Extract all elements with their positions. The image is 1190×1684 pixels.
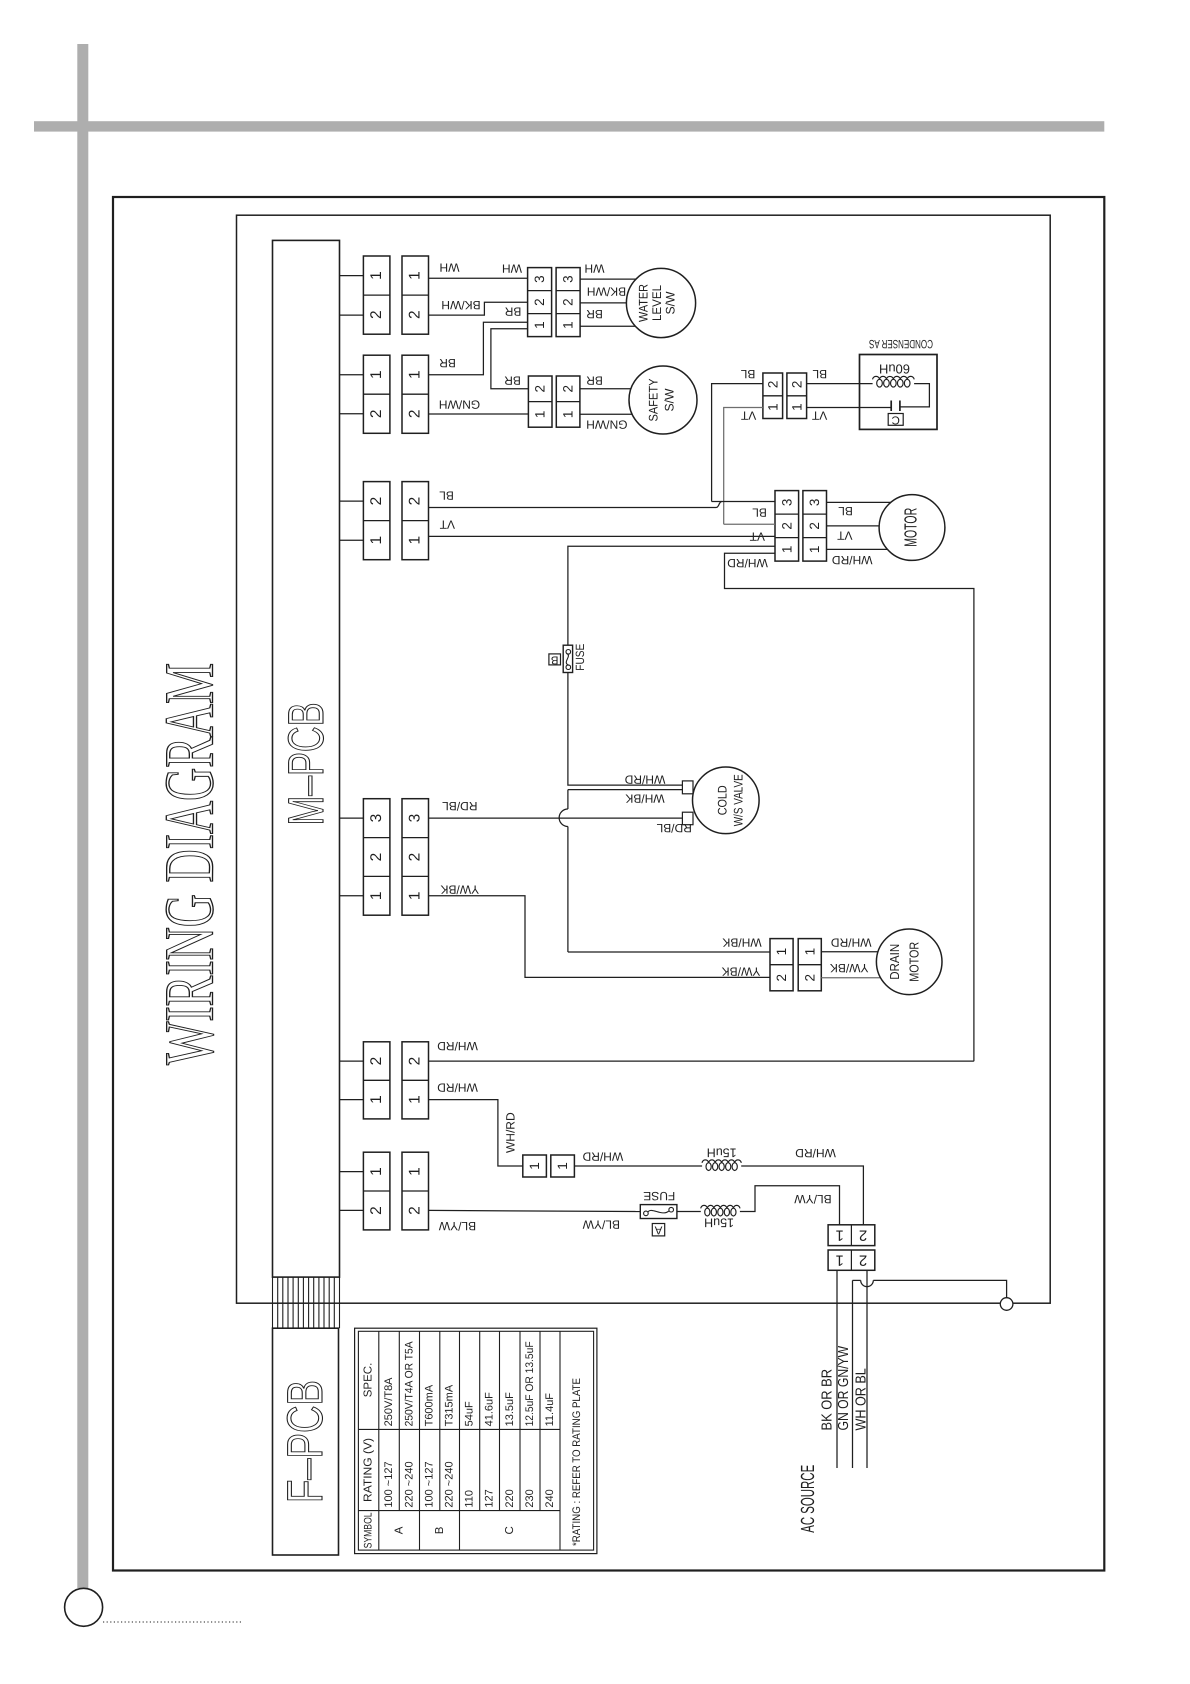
svg-text:12.5uF OR 13.5uF: 12.5uF OR 13.5uF	[524, 1341, 536, 1426]
svg-text:1: 1	[407, 536, 424, 545]
svg-text:WH: WH	[585, 262, 605, 276]
svg-text:GN/WH: GN/WH	[439, 398, 480, 412]
condenser internal wire	[900, 384, 930, 407]
svg-text:GN/WH: GN/WH	[586, 417, 627, 431]
svg-text:T315mA: T315mA	[444, 1384, 456, 1426]
svg-text:BR: BR	[504, 374, 521, 388]
valve pin 1	[682, 781, 693, 794]
svg-text:YW/BK: YW/BK	[722, 964, 761, 978]
svg-text:2: 2	[561, 385, 576, 393]
wire YW/BK: G-1 to drain connector 2	[429, 896, 771, 978]
wire BL/YW: coil up and over to AC connector	[740, 1186, 840, 1225]
svg-text:BK/WH: BK/WH	[441, 298, 480, 312]
svg-text:2: 2	[789, 381, 804, 389]
svg-text:1: 1	[368, 370, 385, 379]
svg-text:15uH: 15uH	[704, 1215, 734, 1229]
registration circle	[65, 1588, 103, 1626]
svg-text:1: 1	[555, 1162, 570, 1170]
wire WH/RD: fuse to valve pin 1	[568, 673, 683, 786]
svg-text:BL: BL	[439, 489, 454, 503]
svg-text:1: 1	[533, 411, 548, 419]
svg-text:2: 2	[561, 298, 576, 306]
connector CN-I (power in)	[363, 1152, 428, 1230]
svg-text:MOTOR: MOTOR	[907, 942, 922, 982]
svg-text:WH/RD: WH/RD	[503, 1112, 517, 1153]
svg-text:AC SOURCE: AC SOURCE	[798, 1465, 819, 1533]
svg-text:1: 1	[836, 1227, 844, 1244]
condenser capacitor plates	[890, 401, 892, 412]
table outer double border	[355, 1328, 597, 1553]
svg-text:S/W: S/W	[663, 388, 677, 411]
svg-text:F–PCB: F–PCB	[277, 1380, 333, 1503]
svg-text:2: 2	[407, 853, 424, 862]
wire BK OR BR	[836, 1270, 838, 1468]
svg-text:2: 2	[807, 522, 822, 530]
wires drain right box to drain motor	[821, 951, 909, 953]
connector CN-G (valve/drain)	[363, 799, 428, 916]
connector CN-DR (drain motor)	[770, 939, 821, 991]
condenser coil 60uH	[873, 376, 915, 379]
svg-text:220 ~240: 220 ~240	[444, 1461, 456, 1507]
wire BL/YW: fuse to 15uH coil (lower)	[677, 1211, 701, 1213]
svg-text:2: 2	[407, 409, 424, 418]
wire GN OR GN/YW (earth) with hop	[852, 1280, 854, 1468]
svg-text:CONDENSER AS: CONDENSER AS	[869, 337, 933, 351]
safety switch circle	[629, 366, 697, 434]
svg-text:W/S VALVE: W/S VALVE	[732, 774, 746, 826]
rating table	[355, 1328, 597, 1553]
boxed label A	[652, 1224, 664, 1236]
fuse A body	[640, 1205, 677, 1219]
svg-text:FUSE: FUSE	[643, 1189, 675, 1203]
svg-text:WH/RD: WH/RD	[624, 772, 665, 786]
svg-text:240: 240	[544, 1489, 556, 1507]
svg-text:SAFETY: SAFETY	[647, 378, 661, 422]
valve pin 2	[682, 812, 693, 825]
wire BL: D-2 left down to motor connector	[712, 384, 763, 502]
svg-text:1: 1	[368, 891, 385, 900]
water level switch circle	[626, 268, 695, 337]
svg-text:VT: VT	[836, 529, 852, 543]
wire WH/RD: H-1 down to inline connector	[429, 1100, 523, 1166]
svg-text:YW/BK: YW/BK	[830, 961, 869, 975]
svg-text:2: 2	[779, 522, 794, 530]
svg-text:BL: BL	[812, 367, 827, 381]
svg-text:B: B	[434, 1526, 446, 1534]
svg-text:2: 2	[368, 409, 385, 418]
M-PCB stub wires to connectors	[340, 276, 364, 1211]
svg-text:1: 1	[774, 948, 789, 956]
svg-text:2: 2	[368, 497, 385, 506]
svg-text:BK/WH: BK/WH	[587, 285, 626, 299]
svg-text:2: 2	[368, 1206, 385, 1215]
svg-text:M–PCB: M–PCB	[278, 703, 334, 826]
dotted leader line	[103, 1621, 243, 1623]
svg-text:2: 2	[533, 385, 548, 393]
svg-text:2: 2	[407, 497, 424, 506]
svg-text:250V/T4A OR T5A: 250V/T4A OR T5A	[403, 1341, 415, 1427]
svg-text:2: 2	[368, 310, 385, 319]
boxed label C	[888, 414, 903, 426]
svg-text:13.5uF: 13.5uF	[504, 1392, 516, 1427]
svg-text:127: 127	[484, 1489, 496, 1507]
svg-text:WH: WH	[502, 262, 522, 276]
svg-text:3: 3	[807, 499, 822, 507]
wire BR: A2-1 up to B-1	[429, 322, 528, 374]
svg-text:WATER: WATER	[636, 284, 650, 322]
svg-text:220: 220	[504, 1489, 516, 1507]
svg-text:BL: BL	[838, 504, 853, 518]
svg-text:2: 2	[407, 310, 424, 319]
wire BL: E-2 to motor-3 with jog	[429, 507, 717, 509]
coil 15uH (upper)	[702, 1160, 741, 1163]
svg-text:1: 1	[789, 403, 804, 411]
svg-text:RD/BL: RD/BL	[656, 821, 692, 835]
svg-text:WH/RD: WH/RD	[795, 1146, 836, 1160]
connector CN-M (motor)	[775, 491, 827, 561]
M-PCB board box	[273, 240, 340, 1277]
svg-text:2: 2	[859, 1252, 867, 1269]
svg-text:100 ~127: 100 ~127	[424, 1461, 436, 1507]
wire VT: D right box to condenser capacitor	[807, 407, 892, 409]
svg-text:2: 2	[765, 381, 780, 389]
wire WH/RD: J to 15uH coil to AC connector	[574, 1165, 702, 1167]
connector CN-E (motor BL/VT)	[363, 482, 428, 560]
cold valve circle	[693, 767, 760, 834]
coil 15uH (lower)	[701, 1205, 740, 1208]
svg-text:FUSE: FUSE	[573, 644, 587, 671]
svg-text:VT: VT	[740, 409, 756, 423]
wire BL/YW: I-2 to fuse A	[429, 1210, 641, 1211]
svg-text:1: 1	[807, 546, 822, 554]
svg-text:1: 1	[779, 546, 794, 554]
svg-text:220 ~240: 220 ~240	[403, 1461, 415, 1507]
svg-text:S/W: S/W	[664, 291, 678, 314]
svg-text:1: 1	[407, 1167, 424, 1176]
wire WH/BK: valve pin 1 down to drain connector (hops RD/BL)	[568, 789, 683, 791]
svg-text:2: 2	[368, 853, 385, 862]
fuse B body	[563, 645, 572, 672]
svg-text:*RATING : REFER TO RATING PLAT: *RATING : REFER TO RATING PLATE	[571, 1378, 583, 1546]
svg-text:WH: WH	[440, 261, 460, 275]
svg-text:2: 2	[407, 1206, 424, 1215]
connector CN-D (condenser)	[763, 373, 807, 419]
svg-text:VT: VT	[811, 409, 827, 423]
svg-text:11.4uF: 11.4uF	[544, 1393, 556, 1427]
svg-text:WH/RD: WH/RD	[832, 553, 873, 567]
wire GN/WH: A2-2 to C-1	[429, 413, 529, 415]
svg-text:1: 1	[368, 1095, 385, 1104]
svg-text:2: 2	[407, 1057, 424, 1066]
svg-text:SYMBOL: SYMBOL	[363, 1512, 375, 1548]
drain motor circle	[876, 929, 942, 995]
wire WH/RD: fuse branch into motor-1	[568, 546, 775, 645]
svg-text:1: 1	[368, 271, 385, 280]
connector CN-J (inline)	[523, 1155, 575, 1177]
svg-text:BR: BR	[586, 374, 603, 388]
svg-text:A: A	[393, 1526, 405, 1534]
svg-text:15uH: 15uH	[707, 1145, 737, 1159]
svg-text:3: 3	[561, 275, 576, 283]
inner diagram border	[237, 215, 1051, 1303]
svg-text:BL: BL	[740, 367, 755, 381]
svg-text:BL/YW: BL/YW	[794, 1192, 832, 1206]
wire BL: D right box to condenser coil	[807, 383, 873, 385]
wire WH: A1-1 to B-3	[429, 277, 528, 279]
wire WH/RD: loop to drain side into motor-1	[725, 553, 974, 1061]
svg-text:41.6uF: 41.6uF	[484, 1392, 496, 1427]
svg-text:230: 230	[524, 1489, 536, 1507]
table band dividers	[358, 1428, 560, 1430]
svg-text:3: 3	[407, 814, 424, 823]
svg-text:WH/RD: WH/RD	[437, 1081, 478, 1095]
svg-text:WIRING DIAGRAM: WIRING DIAGRAM	[152, 663, 229, 1065]
svg-text:WH/BK: WH/BK	[722, 935, 761, 949]
svg-text:2: 2	[802, 974, 817, 982]
svg-text:VT: VT	[439, 518, 455, 532]
svg-text:WH OR BL: WH OR BL	[854, 1368, 870, 1430]
wire WH/BK into drain-1	[568, 951, 770, 953]
svg-text:GN OR GN/YW: GN OR GN/YW	[836, 1346, 852, 1431]
svg-text:1: 1	[561, 411, 576, 419]
svg-text:WH/RD: WH/RD	[831, 935, 872, 949]
svg-text:T600mA: T600mA	[424, 1384, 436, 1426]
wires C right box to safety switch	[580, 388, 663, 390]
condenser assembly box	[860, 355, 938, 430]
registration mark vertical grey bar	[77, 44, 88, 1588]
svg-text:3: 3	[779, 499, 794, 507]
svg-text:MOTOR: MOTOR	[901, 508, 921, 547]
svg-text:250V/T8A: 250V/T8A	[383, 1377, 395, 1427]
M-PCB to F-PCB ribbon cable hatch	[273, 1277, 340, 1328]
outer page border	[113, 197, 1104, 1571]
svg-text:YW/BK: YW/BK	[440, 883, 479, 897]
wires motor right box to motor	[827, 501, 913, 503]
boxed label B	[549, 654, 561, 665]
wires B right box to water level switch	[580, 278, 645, 280]
svg-text:1: 1	[527, 1162, 542, 1170]
svg-text:BR: BR	[439, 356, 456, 370]
svg-text:LEVEL: LEVEL	[650, 285, 664, 321]
svg-text:BL/YW: BL/YW	[582, 1217, 620, 1231]
svg-text:1: 1	[407, 891, 424, 900]
svg-text:BL/YW: BL/YW	[438, 1219, 476, 1233]
svg-text:BR: BR	[586, 307, 603, 321]
wire VT: E-1 to motor-2	[429, 535, 776, 537]
svg-text:BL: BL	[752, 506, 767, 520]
svg-text:A: A	[654, 1224, 662, 1236]
svg-text:1: 1	[561, 321, 576, 329]
connector CN-C (safety sw)	[528, 376, 580, 427]
svg-text:1: 1	[407, 370, 424, 379]
F-PCB board box	[273, 1328, 339, 1555]
table strip dividers	[378, 1331, 380, 1550]
svg-text:COLD: COLD	[716, 785, 730, 815]
connector CN-A2 (safety)	[363, 355, 428, 433]
svg-text:1: 1	[802, 948, 817, 956]
svg-text:WH/RD: WH/RD	[437, 1039, 478, 1053]
wire BK/WH: A1-2 to B-2	[429, 302, 528, 315]
svg-text:B: B	[551, 653, 559, 665]
connector CN-H (wh/rd pair)	[363, 1042, 428, 1119]
svg-text:WH/RD: WH/RD	[582, 1150, 623, 1164]
wire BR: B-1 to C-2 (daisy chain)	[491, 329, 529, 389]
svg-text:2: 2	[368, 1057, 385, 1066]
svg-text:1: 1	[368, 1167, 385, 1176]
wire VT: condenser vertical into motor-2	[724, 523, 775, 525]
earth terminal circle	[1000, 1298, 1013, 1311]
svg-text:1: 1	[532, 321, 547, 329]
wire WH OR BL	[866, 1270, 868, 1468]
svg-text:1: 1	[368, 536, 385, 545]
svg-text:2: 2	[774, 974, 789, 982]
svg-text:C: C	[892, 413, 900, 425]
svg-text:1: 1	[836, 1252, 844, 1269]
svg-text:1: 1	[765, 403, 780, 411]
svg-text:54uF: 54uF	[464, 1401, 476, 1426]
svg-text:2: 2	[859, 1227, 867, 1244]
svg-text:RD/BL: RD/BL	[442, 799, 478, 813]
registration mark horizontal grey bar	[34, 121, 1104, 131]
wire WH/RD: H-2 long wire to loop vertical	[429, 1060, 974, 1062]
wire VT: D-1 left down to motor connector	[724, 408, 763, 525]
svg-text:2: 2	[532, 298, 547, 306]
svg-text:100 ~127: 100 ~127	[383, 1461, 395, 1507]
connector CN-A1 (water level)	[363, 256, 428, 334]
svg-text:WH/BK: WH/BK	[625, 791, 664, 805]
svg-text:DRAIN: DRAIN	[887, 944, 902, 980]
svg-text:3: 3	[368, 814, 385, 823]
connector CN-B (water level sw)	[528, 268, 581, 337]
svg-text:C: C	[504, 1526, 516, 1534]
svg-text:1: 1	[407, 271, 424, 280]
svg-text:WH/RD: WH/RD	[727, 556, 768, 570]
svg-text:BK OR BR: BK OR BR	[820, 1369, 836, 1431]
svg-text:3: 3	[532, 275, 547, 283]
wire RD/BL: G-3 to valve pin 2	[429, 817, 683, 819]
svg-text:BR: BR	[504, 305, 521, 319]
svg-text:RATING (V): RATING (V)	[363, 1438, 375, 1502]
svg-text:60uH: 60uH	[879, 361, 910, 376]
svg-text:110: 110	[464, 1490, 476, 1508]
motor circle	[879, 495, 945, 561]
svg-text:1: 1	[407, 1095, 424, 1104]
svg-text:SPEC.: SPEC.	[363, 1363, 375, 1398]
connector CN-K (AC inlet, mating halves)	[828, 1225, 875, 1271]
svg-text:VT: VT	[749, 530, 765, 544]
